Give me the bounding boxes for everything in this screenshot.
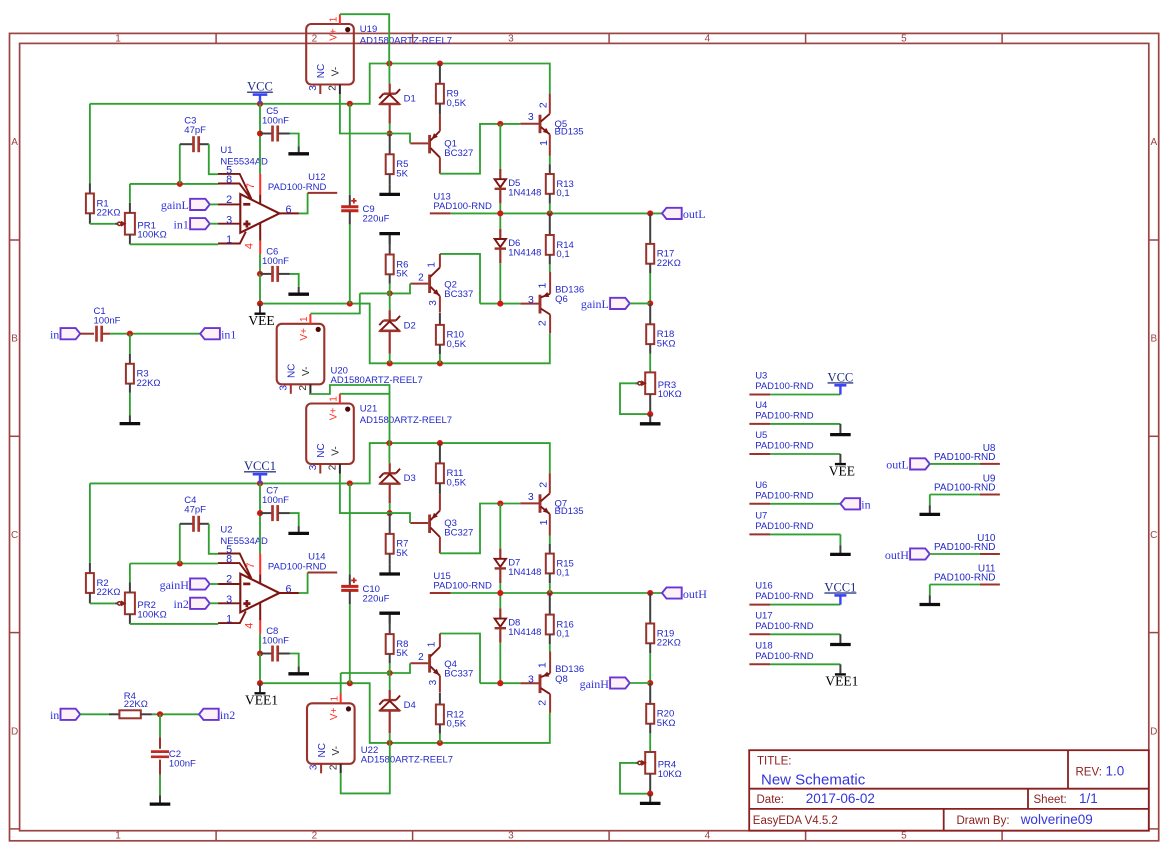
wire [210,583,218,585]
resistor R4 [119,691,147,718]
ground [288,287,309,294]
wire [439,734,441,743]
lead C8 right [278,653,290,655]
frame tick [412,831,414,841]
svg-text:AD1580ARTZ-REEL7: AD1580ARTZ-REEL7 [360,35,452,46]
svg-text:2: 2 [328,764,339,770]
lead R3 top [129,354,131,364]
svg-text:D: D [11,727,18,738]
ground [830,545,851,554]
svg-text:5: 5 [901,831,907,842]
svg-text:NC: NC [287,364,298,378]
transistor Q8 [520,652,550,713]
svg-text:PAD100-RND: PAD100-RND [934,542,996,553]
power flag VCC1 right [824,580,856,604]
lead D2 top [389,310,391,320]
svg-text:PAD100-RND: PAD100-RND [755,621,814,632]
svg-text:1: 1 [226,614,232,626]
lead C10 bottom [349,591,351,604]
lead PR2 top [129,583,131,593]
wire [770,453,840,455]
wire [480,682,520,684]
svg-text:2: 2 [536,320,548,326]
wire [179,144,181,184]
lead R11 bottom [439,483,441,494]
wire [389,293,391,310]
wire [620,763,650,794]
lead R14 top [549,213,551,235]
wire [929,585,931,596]
svg-text:3: 3 [278,385,289,391]
ground [830,634,851,644]
svg-text:22KΩ: 22KΩ [124,699,148,710]
wire [259,634,261,654]
svg-text:2: 2 [298,385,309,391]
potentiometer PR1 [115,213,167,241]
svg-text:D3: D3 [404,473,416,484]
svg-text:PAD100-RND: PAD100-RND [934,452,996,463]
svg-text:5KΩ: 5KΩ [657,718,676,729]
lead R18 bottom [649,344,651,354]
net port in2 [174,597,210,611]
svg-text:100nF: 100nF [262,635,289,646]
wire [770,423,840,425]
lead D4 top [389,690,391,700]
junction [547,590,553,596]
junction [347,680,353,686]
frame tick [1149,239,1159,241]
pad U6 [749,480,813,504]
svg-text:gainL: gainL [161,198,189,212]
wire [209,144,218,174]
svg-text:2: 2 [226,194,232,206]
svg-text:1: 1 [115,831,121,842]
svg-text:gainH: gainH [580,677,610,691]
wire Q4 base rail extension [341,672,390,674]
svg-text:4: 4 [244,243,256,249]
zener diode D2 [379,316,415,331]
svg-text:3: 3 [528,491,534,503]
pad U12 [268,172,337,193]
wire [89,104,91,183]
junction [177,560,183,566]
junction [257,650,263,656]
pad U10 [934,533,1000,554]
wire [90,602,115,604]
junction [257,680,263,686]
svg-text:22KΩ: 22KΩ [657,258,681,269]
svg-text:in1: in1 [221,328,236,342]
resistor R17 [646,244,681,269]
lead R8 top [389,615,391,634]
svg-text:220uF: 220uF [363,593,390,604]
lead R14 bottom [549,255,551,265]
title block [749,750,1149,831]
wire [349,224,351,303]
svg-text:BC327: BC327 [444,528,473,539]
svg-text:3: 3 [308,464,319,470]
svg-text:47pF: 47pF [184,125,206,136]
svg-text:Drawn By:: Drawn By: [957,815,1010,827]
pad U8 [934,443,1000,464]
wire VCC1 rail [90,443,550,483]
lead R3 bottom [129,384,131,393]
wire [110,333,200,335]
lead D5 top [499,169,501,179]
wire [130,243,218,245]
net port outL right [886,458,930,472]
ground [288,666,309,673]
lead C4 right [199,523,208,525]
junction [497,121,503,127]
wire U21 V- to Q3 base [340,474,390,514]
lead D8 bottom [499,628,501,643]
lead R10 bottom [439,345,441,355]
svg-text:Sheet:: Sheet: [1034,794,1067,806]
svg-text:2017-06-02: 2017-06-02 [806,791,875,806]
junction [257,301,263,307]
svg-text:1: 1 [427,262,438,268]
junction [157,711,163,717]
lead D6 bottom [499,249,501,264]
capacitor C7 [273,505,278,521]
svg-text:VEE1: VEE1 [825,674,858,689]
svg-text:0,1: 0,1 [556,188,569,199]
svg-text:1: 1 [329,16,340,22]
svg-text:Q8: Q8 [555,674,568,685]
svg-text:D4: D4 [404,700,416,711]
wire [290,274,299,287]
lead R2 bottom [89,593,91,604]
op-amp U1 [218,164,299,254]
svg-text:U16: U16 [755,581,772,592]
wire [179,524,181,564]
junction [647,680,653,686]
transistor Q3 [410,494,440,553]
zener diode D1 [379,89,415,104]
ground [920,595,941,604]
lead R2 [89,563,91,573]
svg-text:100nF: 100nF [94,316,121,327]
junction [497,680,503,686]
svg-text:AD1580ARTZ-REEL7: AD1580ARTZ-REEL7 [361,755,453,766]
lead C8 left [260,653,272,655]
junction [177,181,183,187]
svg-text:5: 5 [901,33,907,44]
wire [839,534,841,545]
lead C5 left [260,133,272,135]
wire [630,682,650,684]
svg-text:V-: V- [301,367,312,376]
svg-text:5K: 5K [396,548,408,559]
svg-text:5KΩ: 5KΩ [657,338,676,349]
frame tick [10,239,20,241]
wire [549,583,551,593]
wire [649,354,651,373]
svg-text:in: in [861,498,870,512]
svg-text:22KΩ: 22KΩ [97,208,121,219]
lead R11 top [439,443,441,463]
power flag VCC right [828,370,854,394]
svg-text:NC: NC [316,443,327,457]
transistor Q4 [410,634,440,693]
svg-text:2: 2 [537,102,549,108]
lead D7 bottom [499,568,501,583]
power flag VCC1 [244,459,276,483]
resistor R2 [86,573,121,598]
svg-text:100KΩ: 100KΩ [137,230,166,241]
svg-text:6: 6 [285,583,291,595]
svg-text:BC327: BC327 [444,148,473,159]
svg-text:3: 3 [309,764,320,770]
wire [390,513,410,523]
resistor R16 [546,615,574,640]
net port in left top [50,328,80,342]
wire [549,156,551,164]
svg-text:4: 4 [705,831,711,842]
wire [290,513,299,526]
frame tick [1149,828,1159,830]
net port in right [840,498,870,512]
lead C5 right [278,133,290,135]
svg-text:100KΩ: 100KΩ [137,609,166,620]
svg-text:C: C [1150,530,1157,541]
lead PR3 bottom [649,394,651,414]
pad U17 [749,610,813,634]
wire U20 V+ to Q2 base rail [310,293,359,313]
junction [647,791,653,797]
wire [388,443,390,463]
wire [770,503,840,505]
lead R1 [89,183,91,193]
lead C9 bottom [349,212,351,225]
wire [620,383,650,414]
wire [649,273,651,303]
lead R10 top [439,313,441,325]
pad U5 [749,430,813,454]
svg-text:U21: U21 [360,404,377,415]
frame tick [10,435,20,437]
lead D1 bottom [389,104,391,124]
svg-text:1: 1 [538,519,550,525]
wire [549,644,551,652]
frame tick [1149,632,1159,634]
junction [497,500,503,506]
power flag VEE1 right [825,664,858,688]
wire [129,184,131,203]
wire [210,203,218,205]
junction [387,740,393,746]
net port in2 mid [199,708,235,722]
lead C7 left [260,512,272,514]
resistor R10 [436,325,467,350]
diode D5 [495,178,542,199]
lead R15 top [549,544,551,554]
svg-text:BC337: BC337 [444,669,473,680]
svg-text:1: 1 [299,316,310,322]
wire [129,393,131,416]
junction [386,60,392,66]
svg-text:V-: V- [331,746,342,755]
svg-text:in2: in2 [220,708,235,722]
svg-text:Date:: Date: [757,794,785,806]
resistor R5 [386,154,409,179]
svg-text:A: A [1150,137,1157,148]
net port outH [662,587,707,601]
svg-text:V+: V+ [328,408,339,421]
wire [129,334,131,354]
wire [290,134,299,147]
svg-text:1: 1 [329,396,340,402]
ground [288,147,309,154]
lead D1 top [389,84,391,94]
svg-text:in1: in1 [174,218,189,232]
ground [830,424,851,435]
wire [930,494,980,496]
svg-text:1: 1 [115,33,121,44]
wire [389,124,391,134]
wire [129,564,131,583]
svg-text:0,5K: 0,5K [447,719,467,730]
pad U18 [749,640,813,664]
lead R20 top [649,683,651,704]
net port gainL right [581,297,630,311]
svg-text:3: 3 [508,831,514,842]
frame tick [1149,435,1159,437]
svg-text:0,5K: 0,5K [447,98,467,109]
svg-text:in: in [50,328,59,342]
wire [499,504,501,549]
lead R20 bottom [649,724,651,734]
svg-text:gainH: gainH [160,578,190,592]
diode D6 [495,238,542,258]
svg-text:1: 1 [427,641,438,647]
svg-text:3: 3 [528,674,534,686]
lead R12 bottom [439,724,441,734]
potentiometer PR2 [115,593,167,621]
svg-text:BD135: BD135 [555,506,584,517]
svg-text:1: 1 [536,662,548,668]
lead R5 bottom [389,174,391,185]
lead R8 bottom [389,654,391,664]
resistor R15 [546,554,574,579]
svg-text:100nF: 100nF [262,256,289,267]
svg-text:outH: outH [885,548,909,562]
wire [770,604,840,606]
wire [89,483,91,562]
lead R9 bottom [439,104,441,115]
wire [259,483,261,513]
lead D3 bottom [389,484,391,504]
svg-text:0,1: 0,1 [556,629,569,640]
wire [130,563,218,565]
svg-text:220uF: 220uF [363,214,390,225]
svg-text:8: 8 [226,553,232,565]
svg-text:2: 2 [328,85,339,91]
junction [437,360,443,366]
svg-text:7: 7 [245,183,257,189]
wire U22 V- loop [341,743,390,794]
svg-text:VCC: VCC [828,370,854,384]
diode D8 [495,617,542,638]
wire [80,713,109,715]
svg-text:U2: U2 [220,525,232,536]
svg-text:PAD100-RND: PAD100-RND [268,562,327,573]
power flag VCC [247,80,273,104]
wire U21 V+ loop [340,394,390,443]
svg-text:1.0: 1.0 [1106,764,1125,779]
junction [437,440,443,446]
lead R6 top [389,235,391,254]
net port gainH [160,578,210,592]
wire [451,592,662,594]
ground [920,505,941,514]
wire VEE rail [260,304,550,364]
svg-text:2: 2 [226,574,232,586]
lead R16 top [549,593,551,615]
wire [770,663,840,665]
svg-text:22KΩ: 22KΩ [97,587,121,598]
wire [499,203,501,213]
pad U11 [934,564,1000,585]
wire [152,713,199,715]
svg-text:PAD100-RND: PAD100-RND [755,381,814,392]
lead R16 bottom [549,634,551,644]
lead R17 top [649,213,651,244]
svg-text:1N4148: 1N4148 [508,627,541,638]
wire U20 V- [310,385,389,394]
wire [549,204,551,214]
wire [770,533,840,535]
wire [349,604,351,683]
ground [379,185,400,195]
lead C9 top [349,195,351,206]
wire [360,292,390,294]
svg-text:PAD100-RND: PAD100-RND [755,490,814,501]
svg-text:PAD100-RND: PAD100-RND [433,580,492,591]
ground [640,794,661,804]
lead R7 bottom [389,554,391,565]
wire [930,463,980,465]
svg-text:U7: U7 [755,510,767,521]
wire [930,553,980,555]
wire [499,263,501,303]
lead PR1 bottom [129,235,131,245]
frame tick [805,33,807,43]
wire [389,733,391,743]
wire [130,183,218,185]
resistor R11 [436,463,467,488]
svg-text:3: 3 [428,300,439,306]
junction [257,480,263,486]
pad U3 [749,371,813,395]
junction [497,590,503,596]
svg-text:U18: U18 [755,640,772,651]
svg-text:V-: V- [330,446,341,455]
svg-text:PAD100-RND: PAD100-RND [755,521,814,532]
wire [299,573,308,594]
lead PR4 bottom [649,774,651,794]
net port gainL [161,198,210,212]
wire [499,124,501,169]
svg-text:10KΩ: 10KΩ [658,769,682,780]
resistor R1 [86,194,121,219]
wire VCC rail [90,64,550,104]
potentiometer PR4 [635,752,681,780]
junction [347,301,353,307]
svg-text:B: B [11,334,18,345]
frame tick [10,828,20,830]
